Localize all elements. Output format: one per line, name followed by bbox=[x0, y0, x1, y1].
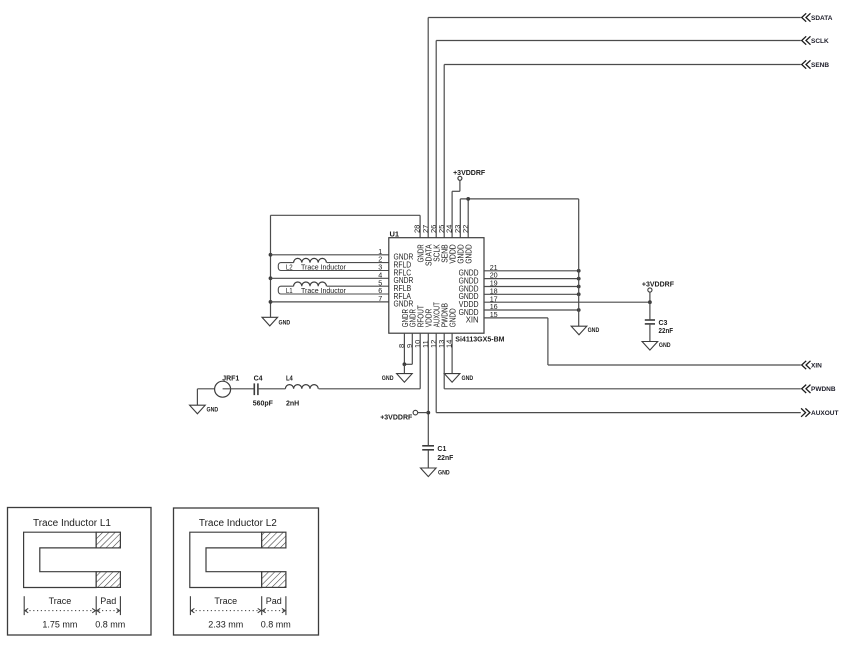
label L1 bbox=[286, 288, 347, 295]
svg-text:GNDD: GNDD bbox=[449, 308, 458, 327]
power +3VDDRF (right) bbox=[642, 281, 675, 292]
svg-text:6: 6 bbox=[378, 286, 382, 295]
svg-text:GNDD: GNDD bbox=[465, 244, 474, 263]
svg-text:Trace: Trace bbox=[214, 596, 237, 606]
capacitor C3 bbox=[645, 320, 674, 335]
wire C1 to ground bbox=[427, 450, 429, 468]
connector JRF1 bbox=[215, 375, 254, 397]
svg-text:Pad: Pad bbox=[100, 596, 116, 606]
junction pins 22/23 rail bbox=[466, 197, 470, 201]
detail box Trace Inductor L1 bbox=[8, 508, 152, 636]
junction pin7 bus bbox=[269, 300, 273, 304]
ground right bus bbox=[571, 326, 600, 335]
wire pin10 RFOUT bbox=[319, 333, 421, 389]
pin 2 number bbox=[378, 255, 382, 264]
wire pin20 GNDD to bus bbox=[484, 277, 581, 281]
svg-text:22: 22 bbox=[461, 225, 470, 233]
label Si4113GX5-BM bbox=[455, 335, 504, 344]
svg-text:GND: GND bbox=[382, 376, 394, 382]
ground pins 8/9 bbox=[382, 374, 412, 383]
U1 top pin names bbox=[417, 244, 474, 266]
svg-text:L2: L2 bbox=[286, 265, 293, 272]
svg-text:C3: C3 bbox=[659, 320, 668, 327]
svg-text:Trace Inductor: Trace Inductor bbox=[301, 288, 347, 295]
port SCLK bbox=[802, 36, 829, 45]
svg-text:GND: GND bbox=[438, 470, 450, 476]
svg-text:GND: GND bbox=[207, 407, 219, 413]
svg-text:560pF: 560pF bbox=[253, 401, 274, 408]
wire pin14 GNDD bbox=[451, 333, 453, 373]
svg-text:Trace Inductor L2: Trace Inductor L2 bbox=[199, 518, 277, 529]
wire pin19 GNDD to bus bbox=[484, 285, 581, 289]
trace inductor L1 loop (pins 5-6) bbox=[278, 282, 389, 294]
port XIN bbox=[802, 361, 822, 370]
junction pin1 bus bbox=[269, 253, 273, 257]
wire +3VDDRF to VDDD junction bbox=[649, 292, 651, 302]
U1 bottom pin numbers 8-14 bbox=[397, 340, 454, 348]
port AUXOUT bbox=[801, 408, 838, 417]
svg-text:AUXOUT: AUXOUT bbox=[811, 410, 838, 417]
wire pin7 GNDR bbox=[271, 294, 389, 303]
wire pin28 GNDR to left bus bbox=[271, 215, 421, 237]
port SDATA bbox=[802, 13, 833, 21]
wire pins 8/9 GNDR bbox=[403, 333, 413, 366]
wire pin12 AUXOUT bbox=[436, 333, 801, 412]
svg-text:2nH: 2nH bbox=[286, 401, 299, 408]
svg-text:L1: L1 bbox=[286, 288, 293, 295]
pin 6 number bbox=[378, 286, 382, 295]
wire SENB net (pin 25 to connector) bbox=[444, 65, 801, 238]
port PWDNB bbox=[802, 385, 836, 394]
wire pin21 GNDD to bus bbox=[484, 269, 581, 273]
junction VDDD/C3 bbox=[648, 300, 652, 304]
svg-text:Pad: Pad bbox=[266, 596, 282, 606]
wire pin24 VDDD to +3VDDRF bbox=[452, 180, 460, 237]
power +3VDDRF (top) bbox=[453, 170, 486, 180]
svg-text:GND: GND bbox=[588, 328, 600, 334]
svg-text:GND: GND bbox=[462, 376, 474, 382]
svg-text:+3VDDRF: +3VDDRF bbox=[642, 281, 675, 288]
svg-text:SDATA: SDATA bbox=[811, 15, 833, 22]
svg-text:0.8 mm: 0.8 mm bbox=[261, 620, 291, 630]
svg-text:Trace Inductor: Trace Inductor bbox=[301, 265, 347, 272]
pin 3 number bbox=[378, 263, 382, 272]
U1 bottom pin names bbox=[401, 302, 458, 327]
svg-text:Trace Inductor L1: Trace Inductor L1 bbox=[33, 518, 111, 529]
wire SCLK net (pin 26 to connector) bbox=[436, 41, 801, 238]
power +3VDDRF (bottom) bbox=[380, 410, 428, 421]
wire pin15 XIN bbox=[484, 318, 801, 365]
detail box Trace Inductor L2 bbox=[174, 508, 319, 635]
svg-text:SENB: SENB bbox=[811, 62, 829, 69]
label U1 bbox=[390, 230, 400, 239]
wire junction to C3 bbox=[649, 302, 651, 319]
wire pin11 VDDR bbox=[427, 333, 429, 445]
label L2 bbox=[286, 265, 347, 272]
svg-text:2.33 mm: 2.33 mm bbox=[208, 620, 243, 630]
wire top GNDD rail bbox=[460, 198, 578, 200]
svg-text:7: 7 bbox=[378, 294, 382, 303]
wire pin17 VDDD to +3VDDRF bbox=[484, 301, 650, 303]
svg-text:PWDNB: PWDNB bbox=[811, 386, 836, 393]
U1 right pin numbers 21-15 bbox=[490, 263, 498, 319]
wire C3 to ground bbox=[649, 325, 651, 342]
U1 right pin names bbox=[459, 269, 479, 325]
wire left GNDR bus bbox=[270, 215, 272, 317]
ground C3 bbox=[642, 342, 671, 351]
svg-text:JRF1: JRF1 bbox=[222, 375, 239, 382]
svg-text:GND: GND bbox=[659, 343, 671, 349]
svg-text:C4: C4 bbox=[254, 375, 263, 382]
inductor L4 bbox=[285, 375, 318, 407]
U1 top pin numbers 28-22 bbox=[413, 225, 470, 233]
svg-text:3: 3 bbox=[378, 263, 382, 272]
svg-text:L4: L4 bbox=[286, 375, 293, 382]
ground left bus bbox=[262, 317, 291, 326]
svg-text:U1: U1 bbox=[390, 230, 400, 239]
junction pin4 bus bbox=[269, 276, 273, 280]
wire right GNDD bus bbox=[578, 199, 580, 326]
svg-text:GND: GND bbox=[279, 320, 291, 326]
U1 left pin names bbox=[394, 253, 414, 309]
svg-text:XIN: XIN bbox=[466, 316, 479, 325]
wire JRF1 left bbox=[197, 388, 214, 390]
ground JRF1 bbox=[190, 405, 219, 414]
svg-text:1.75 mm: 1.75 mm bbox=[42, 620, 77, 630]
wire to ground pins 8/9 bbox=[403, 364, 405, 373]
svg-text:C1: C1 bbox=[437, 446, 446, 453]
port SENB bbox=[802, 60, 830, 69]
svg-text:+3VDDRF: +3VDDRF bbox=[380, 415, 413, 422]
svg-text:+3VDDRF: +3VDDRF bbox=[453, 170, 486, 177]
wire pin23 GNDD up bbox=[459, 199, 461, 238]
svg-text:22nF: 22nF bbox=[437, 455, 454, 462]
svg-text:SCLK: SCLK bbox=[811, 38, 829, 45]
wire JRF1 to ground bbox=[196, 389, 198, 405]
wire pin13 PWDNB bbox=[444, 333, 801, 389]
wire pin18 GNDD to bus bbox=[484, 292, 581, 296]
ground C1 bbox=[421, 468, 451, 477]
wire C4 to L4 bbox=[259, 388, 286, 390]
svg-text:XIN: XIN bbox=[811, 362, 822, 369]
svg-text:22nF: 22nF bbox=[659, 328, 674, 335]
svg-text:GNDR: GNDR bbox=[394, 300, 414, 309]
op-amp U1 Si4113GX5-BM body bbox=[389, 238, 484, 334]
ground pin14 bbox=[444, 374, 473, 383]
capacitor C4 bbox=[253, 375, 274, 407]
junction VDDR/+3VDDRF bbox=[426, 411, 430, 415]
wire pin22 GNDD up bbox=[467, 199, 469, 238]
capacitor C1 bbox=[422, 446, 454, 462]
svg-text:0.8 mm: 0.8 mm bbox=[95, 620, 125, 630]
pin 5 number bbox=[378, 278, 382, 287]
svg-text:Si4113GX5-BM: Si4113GX5-BM bbox=[455, 335, 504, 344]
wire pin16 GNDD to bus bbox=[484, 308, 581, 312]
svg-text:Trace: Trace bbox=[49, 596, 72, 606]
trace inductor L2 loop (pins 2-3) bbox=[278, 258, 389, 270]
wire SDATA net (pin 27 to connector) bbox=[428, 18, 801, 238]
wire pin1 GNDR bbox=[271, 247, 389, 256]
wire pin4 GNDR bbox=[271, 270, 389, 279]
